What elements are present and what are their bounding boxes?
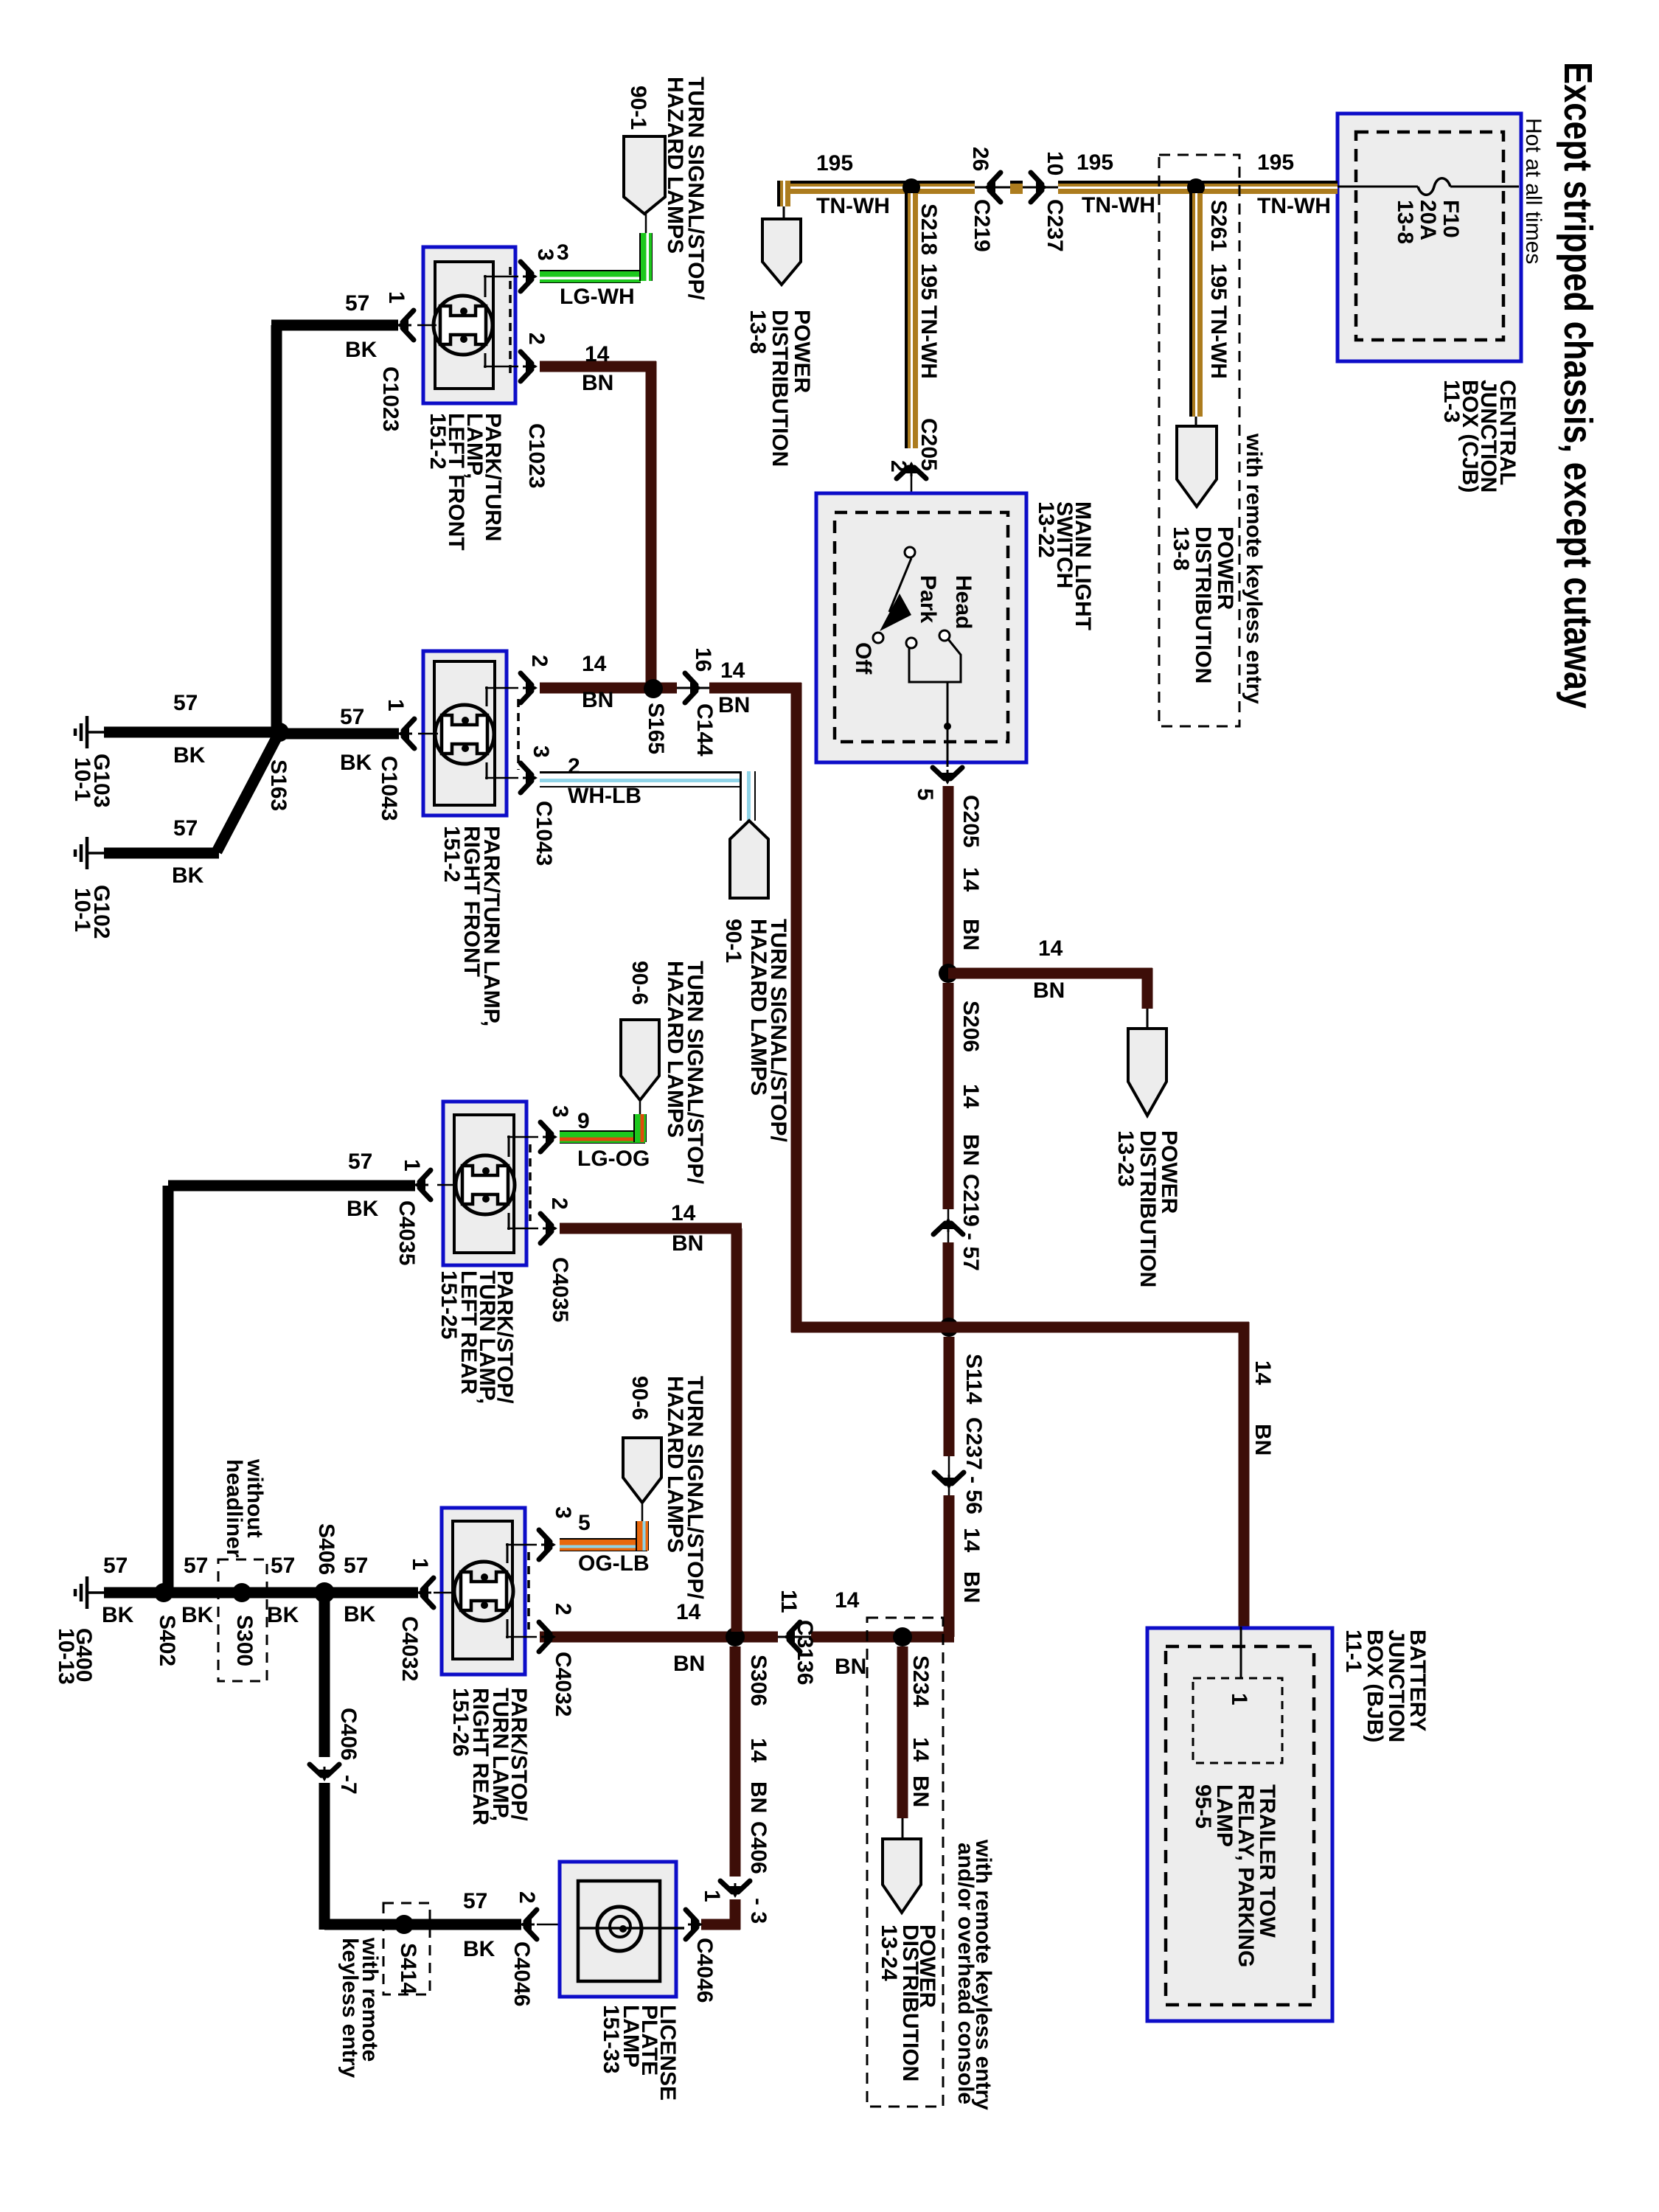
svg-text:BN: BN [959,1571,984,1603]
svg-text:keyless entry: keyless entry [338,1938,362,2078]
svg-text:20A: 20A [1416,200,1440,240]
svg-text:5: 5 [578,1511,591,1535]
svg-text:BN: BN [718,693,750,717]
svg-text:1: 1 [408,1558,432,1571]
svg-text:BK: BK [340,751,372,775]
svg-text:14: 14 [720,658,745,683]
svg-text:14: 14 [671,1201,696,1225]
svg-text:95-5: 95-5 [1191,1784,1215,1829]
svg-text:Head: Head [951,575,975,629]
svg-text:HAZARD LAMPS: HAZARD LAMPS [663,77,687,254]
svg-text:195: 195 [1206,263,1231,300]
svg-text:S406: S406 [314,1523,338,1575]
svg-text:3: 3 [529,745,553,758]
svg-text:HAZARD LAMPS: HAZARD LAMPS [663,1376,687,1553]
svg-text:2: 2 [527,655,552,667]
svg-text:C4035: C4035 [394,1200,419,1265]
svg-text:57: 57 [340,705,364,729]
svg-text:BK: BK [345,338,378,362]
svg-text:14: 14 [835,1588,860,1613]
svg-text:57: 57 [271,1554,295,1578]
svg-text:2: 2 [524,333,549,345]
svg-text:-7: -7 [336,1775,361,1795]
svg-text:BN: BN [1251,1424,1275,1455]
svg-text:14: 14 [585,342,610,366]
svg-text:with remote keyless entry: with remote keyless entry [1242,433,1266,704]
svg-text:14: 14 [908,1737,933,1762]
svg-text:11-1: 11-1 [1341,1630,1366,1672]
svg-text:S300: S300 [232,1615,257,1666]
svg-text:151-2: 151-2 [439,826,464,883]
svg-text:57: 57 [345,291,369,316]
svg-text:C219: C219 [970,199,994,252]
svg-text:S306: S306 [746,1655,771,1706]
svg-text:C4046: C4046 [692,1938,717,2003]
svg-text:2: 2 [886,460,911,473]
svg-text:S206: S206 [959,1001,983,1052]
svg-text:195: 195 [917,263,941,300]
svg-text:14: 14 [582,652,607,676]
svg-text:C237 - 56: C237 - 56 [961,1417,986,1514]
svg-text:13-8: 13-8 [745,310,770,354]
svg-text:14: 14 [746,1738,771,1763]
svg-text:DISTRIBUTION: DISTRIBUTION [1135,1130,1160,1287]
svg-text:13-23: 13-23 [1113,1130,1138,1187]
svg-text:11-3: 11-3 [1439,380,1464,422]
svg-text:Hot at all times: Hot at all times [1521,118,1545,264]
svg-text:C144: C144 [692,703,717,757]
svg-text:HAZARD LAMPS: HAZARD LAMPS [663,961,687,1138]
svg-text:1: 1 [700,1890,724,1902]
svg-text:151-25: 151-25 [437,1270,461,1339]
svg-text:1: 1 [383,699,408,712]
svg-text:BN: BN [673,1652,705,1676]
svg-text:3: 3 [533,248,557,261]
svg-text:C1023: C1023 [524,423,549,488]
svg-text:BK: BK [181,1603,214,1627]
svg-text:10-1: 10-1 [70,757,94,801]
svg-text:C1023: C1023 [378,366,403,431]
svg-text:BK: BK [102,1603,134,1627]
svg-text:BK: BK [347,1197,379,1221]
svg-text:3: 3 [551,1506,575,1519]
svg-text:9: 9 [577,1109,590,1133]
svg-text:13-8: 13-8 [1169,526,1193,571]
svg-text:BK: BK [267,1603,299,1627]
svg-text:57: 57 [184,1554,208,1578]
svg-text:TN-WH: TN-WH [816,194,890,218]
svg-text:BN: BN [959,919,983,950]
svg-text:11: 11 [776,1590,801,1613]
svg-text:C1043: C1043 [377,756,401,821]
svg-text:BN: BN [835,1655,866,1679]
svg-text:2: 2 [515,1891,539,1904]
svg-text:57: 57 [348,1150,372,1174]
svg-text:LG-OG: LG-OG [577,1147,650,1171]
svg-text:5: 5 [913,788,937,801]
svg-text:14: 14 [959,1084,983,1109]
svg-text:C1043: C1043 [532,801,556,866]
svg-text:S261: S261 [1206,200,1231,251]
svg-text:BK: BK [344,1602,376,1627]
svg-text:14: 14 [1038,936,1063,961]
svg-text:16: 16 [691,647,715,672]
svg-text:TN-WH: TN-WH [1257,194,1331,218]
svg-text:POWER: POWER [790,310,814,394]
svg-text:Park: Park [916,575,940,623]
svg-text:C3136: C3136 [793,1620,817,1685]
svg-text:LG-WH: LG-WH [560,285,635,309]
svg-text:90-1: 90-1 [721,919,745,963]
svg-text:OG-LB: OG-LB [578,1551,650,1576]
svg-text:BK: BK [172,863,204,888]
svg-text:10: 10 [1043,151,1067,175]
svg-text:F10: F10 [1439,200,1463,238]
svg-text:2: 2 [547,1197,571,1210]
svg-text:BK: BK [173,743,206,768]
svg-text:57: 57 [173,691,198,715]
svg-text:14: 14 [676,1600,701,1624]
svg-text:S165: S165 [644,703,668,754]
svg-text:S163: S163 [266,759,291,811]
svg-text:3: 3 [557,240,569,265]
svg-text:C406: C406 [746,1821,771,1874]
svg-text:C4046: C4046 [509,1941,534,2006]
svg-text:2: 2 [568,754,580,779]
svg-text:26: 26 [968,147,992,171]
svg-text:13-22: 13-22 [1034,501,1058,558]
svg-text:- 3: - 3 [746,1898,771,1924]
svg-text:S402: S402 [155,1615,179,1666]
svg-text:57: 57 [103,1554,128,1578]
svg-text:14: 14 [1251,1360,1275,1385]
svg-text:2: 2 [551,1603,575,1615]
svg-text:57: 57 [344,1554,368,1578]
svg-text:BN: BN [908,1775,933,1807]
svg-text:195: 195 [816,151,853,175]
svg-text:C406: C406 [336,1708,361,1761]
svg-text:90-1: 90-1 [626,86,650,130]
svg-text:BN: BN [1033,978,1065,1003]
svg-text:90-6: 90-6 [627,1376,652,1420]
svg-text:C4035: C4035 [548,1257,572,1322]
svg-text:14: 14 [959,1528,984,1553]
svg-text:BK: BK [463,1937,495,1961]
svg-text:1: 1 [1227,1693,1251,1705]
svg-text:C205: C205 [917,418,941,471]
svg-text:C4032: C4032 [551,1652,575,1717]
svg-text:BN: BN [672,1231,703,1256]
svg-text:10-13: 10-13 [54,1628,78,1685]
svg-text:13-8: 13-8 [1393,200,1417,244]
svg-text:TN-WH: TN-WH [917,305,941,379]
svg-text:S114: S114 [961,1354,986,1405]
svg-text:195: 195 [1077,150,1113,175]
svg-text:195: 195 [1257,150,1294,175]
svg-text:Off: Off [851,642,875,675]
svg-text:C205: C205 [959,795,983,848]
svg-text:1: 1 [384,291,408,304]
svg-text:S234: S234 [908,1655,933,1707]
svg-text:BN: BN [959,1134,983,1166]
svg-text:BN: BN [582,688,613,712]
svg-text:C237: C237 [1043,199,1067,252]
svg-text:57: 57 [173,816,198,841]
svg-text:TN-WH: TN-WH [1206,305,1231,379]
svg-text:BN: BN [582,371,613,395]
svg-text:90-6: 90-6 [627,961,652,1005]
svg-text:TN-WH: TN-WH [1082,193,1155,218]
svg-text:13-24: 13-24 [877,1924,901,1981]
svg-text:C4032: C4032 [397,1616,422,1681]
svg-text:Except stripped chassis, exce: Except stripped chassis, except cutaway [1556,62,1600,709]
svg-text:S414: S414 [396,1943,420,1994]
svg-text:C219 - 57: C219 - 57 [959,1174,983,1271]
svg-text:151-2: 151-2 [425,413,450,470]
svg-text:151-26: 151-26 [448,1688,473,1756]
svg-text:headliner: headliner [222,1459,246,1558]
svg-text:DISTRIBUTION: DISTRIBUTION [768,310,792,467]
svg-text:WH-LB: WH-LB [568,784,641,808]
svg-text:and/or overhead console: and/or overhead console [953,1843,978,2104]
svg-text:S218: S218 [917,204,941,255]
svg-text:HAZARD LAMPS: HAZARD LAMPS [746,919,771,1096]
svg-text:10-1: 10-1 [70,888,94,932]
svg-text:1: 1 [400,1159,424,1172]
svg-text:POWER: POWER [1213,526,1237,611]
svg-text:DISTRIBUTION: DISTRIBUTION [1191,526,1215,684]
svg-text:57: 57 [463,1889,487,1913]
svg-text:BN: BN [746,1781,771,1813]
svg-text:14: 14 [959,867,983,892]
svg-text:3: 3 [548,1105,572,1118]
svg-text:151-33: 151-33 [599,2005,623,2073]
